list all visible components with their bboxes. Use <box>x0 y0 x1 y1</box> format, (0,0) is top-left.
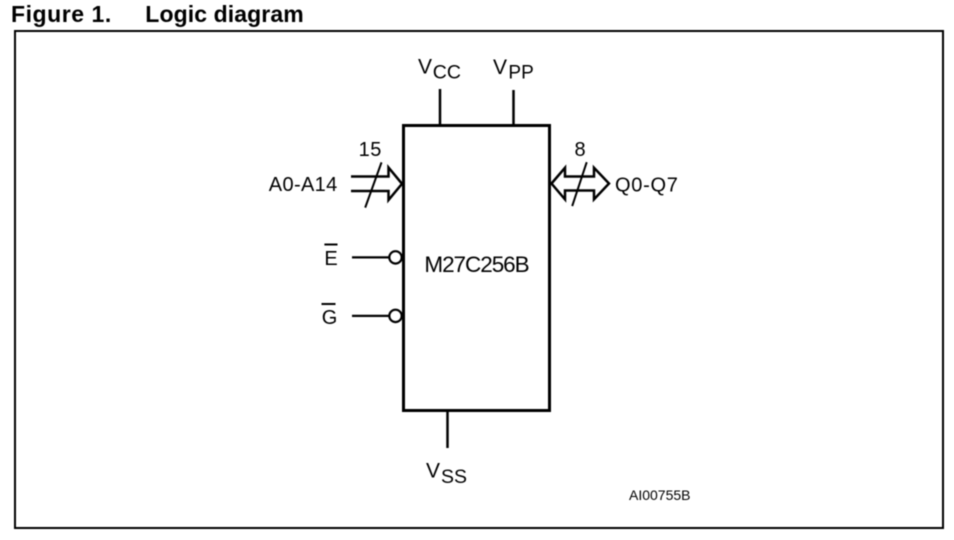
svg-text:Q0-Q7: Q0-Q7 <box>615 174 679 196</box>
svg-text:V: V <box>418 55 432 78</box>
svg-text:M27C256B: M27C256B <box>424 252 528 277</box>
svg-text:AI00755B: AI00755B <box>629 487 691 503</box>
svg-text:A0-A14: A0-A14 <box>269 174 338 196</box>
svg-text:V: V <box>426 459 440 482</box>
svg-text:15: 15 <box>359 139 382 161</box>
svg-text:V: V <box>493 56 507 79</box>
svg-text:8: 8 <box>575 139 586 161</box>
svg-text:Figure 1.: Figure 1. <box>11 1 112 27</box>
svg-text:CC: CC <box>433 62 461 84</box>
svg-text:G: G <box>322 307 338 329</box>
svg-text:SS: SS <box>441 466 467 488</box>
svg-text:PP: PP <box>508 63 533 84</box>
svg-text:Logic diagram: Logic diagram <box>145 1 303 27</box>
svg-text:E: E <box>324 248 337 270</box>
